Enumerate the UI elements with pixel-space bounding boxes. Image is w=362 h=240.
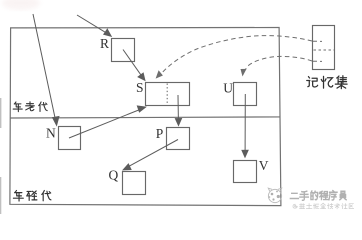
svg-text:S: S [136,80,144,95]
svg-text:U: U [223,81,233,96]
svg-text:N: N [46,125,56,140]
svg-text:R: R [100,36,109,51]
svg-text:P: P [156,126,164,141]
svg-text:V: V [259,158,269,173]
svg-text:Q: Q [109,168,119,183]
